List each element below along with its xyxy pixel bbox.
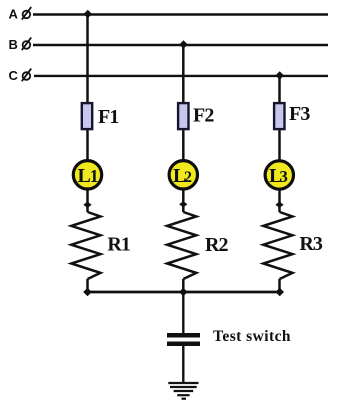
svg-text:B: B	[9, 37, 18, 52]
svg-text:R1: R1	[107, 233, 130, 255]
svg-text:F3: F3	[289, 103, 310, 125]
svg-text:F1: F1	[98, 106, 118, 128]
svg-text:C: C	[9, 68, 19, 83]
svg-text:R3: R3	[299, 233, 323, 255]
svg-text:3: 3	[279, 167, 288, 186]
svg-text:1: 1	[90, 166, 99, 186]
svg-text:F2: F2	[193, 104, 214, 126]
svg-text:R2: R2	[205, 234, 229, 256]
svg-text:2: 2	[184, 169, 192, 186]
svg-text:A: A	[9, 7, 19, 22]
svg-text:Test switch: Test switch	[213, 328, 291, 345]
